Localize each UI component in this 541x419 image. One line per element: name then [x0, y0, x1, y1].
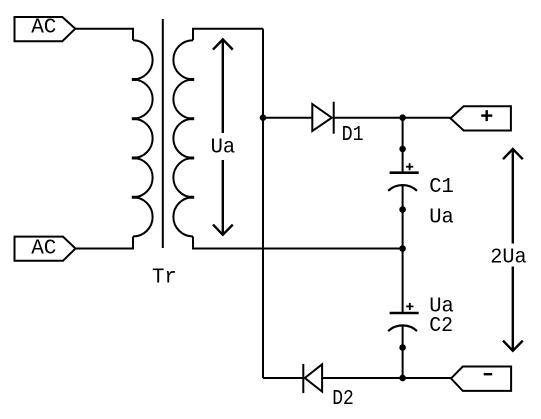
svg-text:Tr: Tr	[152, 267, 177, 290]
wire (AC top tag to primary winding top)	[75, 29, 133, 41]
wire (D2 row: branch to diode)	[263, 377, 303, 379]
diode D2	[303, 364, 322, 393]
svg-text:C1: C1	[429, 176, 454, 199]
node pin dot C1 top	[399, 146, 406, 153]
label + (in tag)	[481, 110, 492, 121]
svg-text:AC: AC	[31, 238, 56, 261]
capacitor C1	[388, 163, 419, 191]
wire (C2 bottom to D2 row)	[402, 325, 404, 378]
arrow 2Ua (output voltage arrow)	[503, 149, 523, 351]
node junction (402.6,248.5) midpoint	[399, 245, 406, 252]
transformer core	[162, 19, 164, 248]
node pin dot C2 bottom	[399, 344, 406, 351]
svg-text:AC: AC	[31, 17, 56, 40]
wire (D1 row: branch to diode)	[263, 117, 312, 119]
diode D1	[312, 102, 333, 134]
terminal + (positive output tag)	[451, 106, 511, 130]
label - (in tag)	[484, 373, 493, 375]
wire (secondary bottom to capacitor midpoint)	[193, 237, 403, 249]
transformer Tr secondary winding	[173, 40, 194, 236]
wire (capacitor chain: + rail down to C1)	[402, 118, 404, 173]
wire (D2 anode to - terminal)	[322, 377, 451, 379]
wire (primary winding bottom to AC bottom tag)	[76, 237, 134, 249]
terminal - (negative output tag)	[451, 367, 511, 391]
node junction (402.6,378)	[399, 375, 406, 382]
svg-text:C2: C2	[429, 315, 453, 338]
node pin dot C1 bottom	[399, 206, 406, 213]
svg-text:Ua: Ua	[429, 206, 454, 229]
node junction (263,117.7)	[260, 114, 267, 121]
svg-text:2Ua: 2Ua	[490, 246, 526, 269]
terminal AC (bottom input tag)	[15, 237, 76, 261]
terminal AC (top input tag)	[15, 17, 76, 41]
svg-text:Ua: Ua	[211, 137, 236, 160]
arrow Ua (secondary voltage arrow)	[213, 39, 233, 234]
wire (D1 cathode to + terminal)	[334, 117, 451, 119]
node junction (402.6,117.7)	[399, 114, 406, 121]
wire (midpoint down to C2)	[402, 249, 404, 314]
svg-text:D1: D1	[342, 124, 364, 147]
capacitor C2	[388, 303, 419, 331]
wire (secondary top to left branch corner)	[193, 29, 263, 41]
wire (left branch vertical: secondary top to D2 row)	[262, 29, 264, 378]
wire (C1 bottom to midpoint junction)	[402, 185, 404, 248]
svg-text:D2: D2	[332, 388, 354, 411]
transformer Tr primary winding	[132, 40, 153, 236]
